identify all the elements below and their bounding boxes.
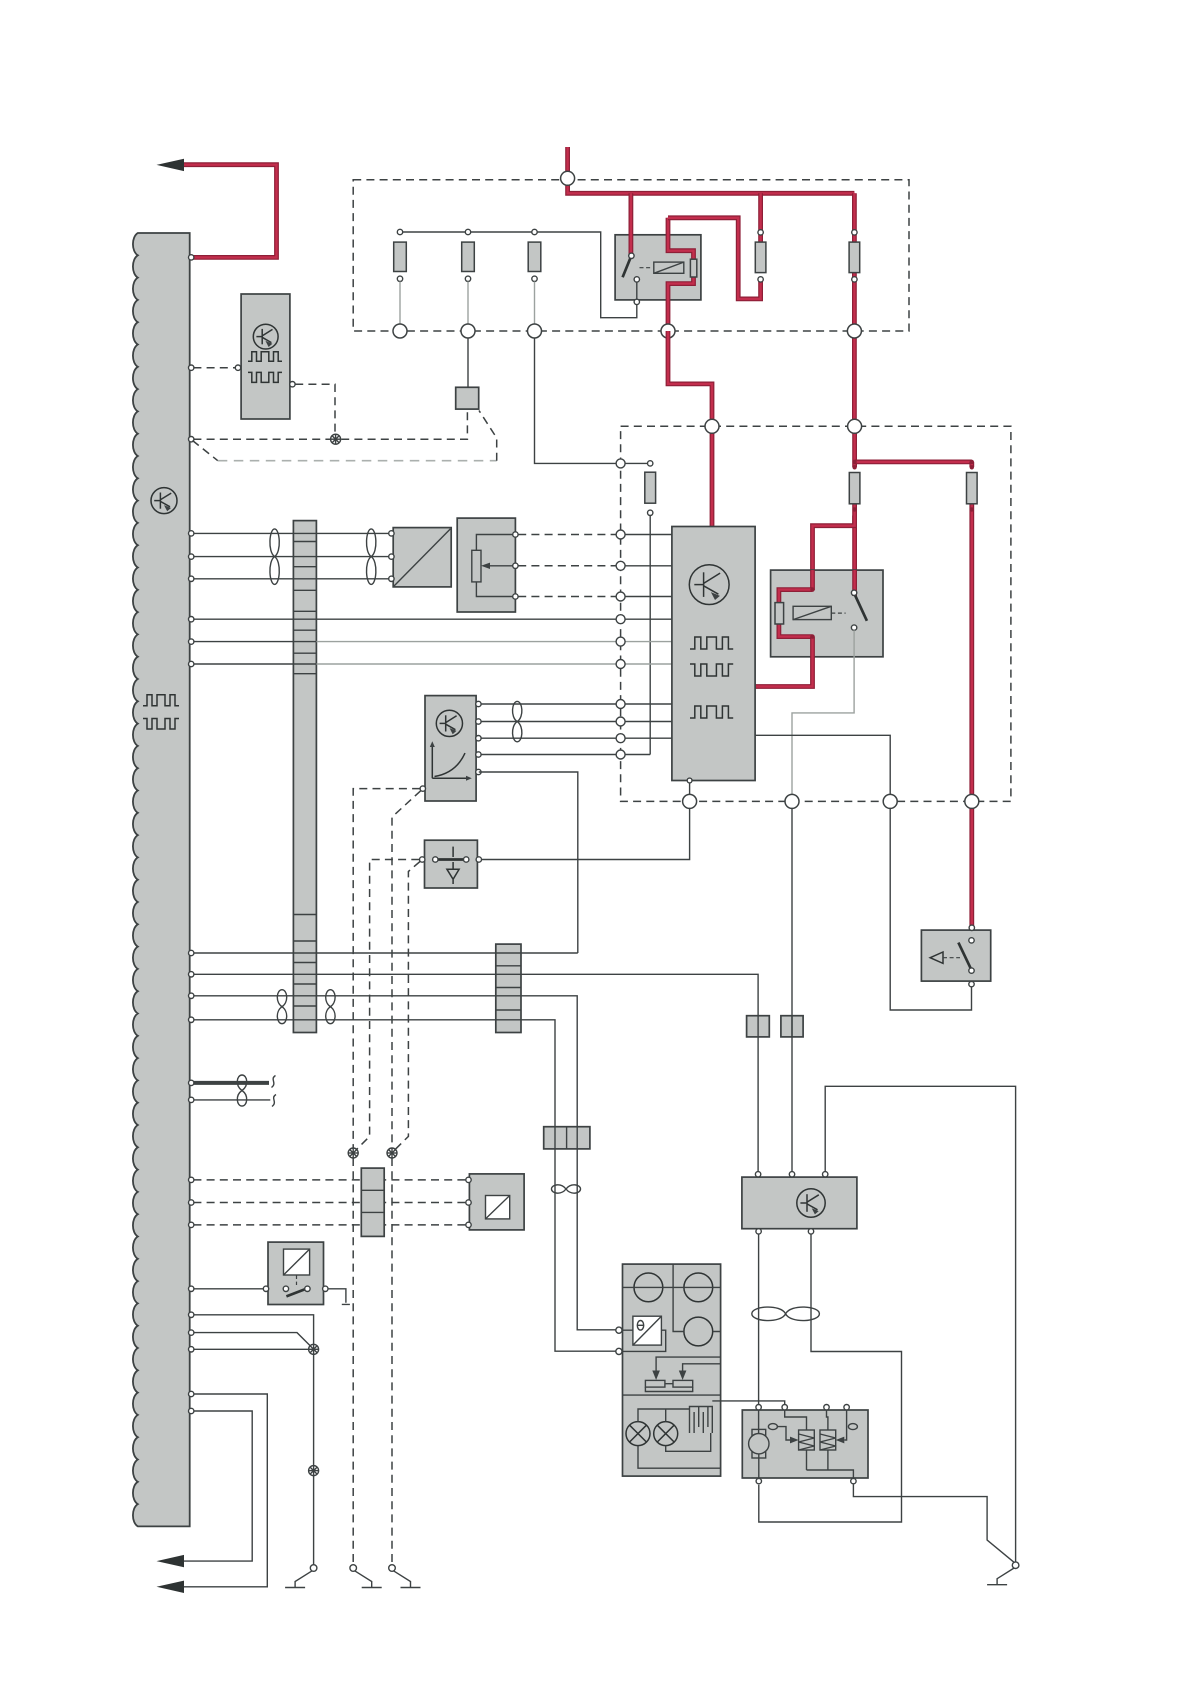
red wire W14 coil wrap loop: [779, 590, 813, 637]
cluster input pins: [616, 1327, 622, 1333]
fuse F1c bottom pin: [532, 276, 537, 281]
cluster gauge 1: [634, 1273, 663, 1302]
heater motor: [752, 1429, 766, 1458]
brake switch blade: [958, 943, 971, 969]
fuse F1b lead to node: [467, 282, 469, 325]
cluster rheostat 1: [645, 1380, 665, 1387]
relay K1 switch fixed contact pin: [634, 277, 639, 282]
fuse F5 body: [967, 473, 978, 504]
node on fuse box top edge (red feed): [561, 171, 575, 185]
wire column to ECU t1: [625, 703, 672, 705]
relay K1 body: [615, 235, 701, 300]
ECU connector pin column: [616, 459, 625, 468]
fuse header wire: [400, 232, 637, 318]
ground wire below splice S4: [313, 1355, 315, 1565]
speed module left pin: [235, 365, 240, 370]
bus pin diagnostic: [189, 437, 194, 442]
node G on ECU box top edge: [848, 419, 862, 433]
cluster rheostat 2: [673, 1380, 693, 1387]
twisted pair symbol T5: [326, 990, 335, 1024]
wire node B to junction box J1: [467, 338, 469, 387]
wire node C to left column node: [535, 338, 617, 463]
cluster dimmer arrow 1: [652, 1371, 660, 1381]
wire row bus 974 to blower controller: [193, 974, 758, 1171]
relay K2 coil: [793, 606, 831, 619]
wire row 1333 to splice S4: [193, 1333, 310, 1346]
fuse box dashed boundary: [353, 180, 909, 331]
red wire W8 node D to ECU top: [668, 331, 712, 526]
heater top pins: [756, 1405, 761, 1410]
blower controller bottom pins: [756, 1229, 761, 1234]
throttle output pins: [476, 701, 481, 706]
cluster lamp wiring: [638, 1409, 721, 1468]
fuse F1a lead to node: [399, 282, 401, 325]
splice S2: [348, 1148, 358, 1158]
single-pole connector C3: [747, 1016, 770, 1037]
cluster temp sensor box: [633, 1316, 662, 1345]
wire row bus to ECU r4: [193, 618, 616, 620]
cluster dimmer feed 1: [656, 1357, 721, 1371]
fuse F3 body: [849, 242, 860, 273]
lamp switch inner symbol: [284, 1249, 310, 1275]
dashed wire pot to column node 3: [518, 596, 616, 598]
wire column to ECU r5: [625, 641, 672, 643]
wire blower to heater motor: [758, 1234, 760, 1404]
relay K2 coil resistor: [775, 603, 784, 624]
relay K1 switch movable pin: [629, 253, 634, 258]
dashed wire V1 to throttle pin: [353, 789, 420, 1148]
heater series resistor 2: [820, 1430, 836, 1450]
red wire W13 elbow to coil loop: [813, 516, 855, 591]
fuse F1c top pin: [532, 229, 537, 234]
red wire W7 through fuse F3 down to node: [852, 193, 857, 426]
node E on fuse box bottom edge: [847, 324, 861, 338]
wire row 1394 to arrow: [184, 1394, 268, 1587]
mirror inner symbol: [486, 1196, 510, 1219]
bus pins rows 953-1020: [189, 950, 194, 955]
red wire W4 relay coil loop: [668, 218, 694, 332]
arrowhead to power supply (left): [157, 159, 185, 171]
twisted pair symbol T4: [277, 990, 286, 1024]
fuse F1b bottom pin: [465, 276, 470, 281]
wire column to ECU t3: [625, 737, 672, 739]
relay K1 bottom pin: [634, 299, 639, 304]
throttle left pin: [420, 786, 425, 791]
wire ECU bottom to node H: [689, 783, 691, 795]
heavy supply cable: [193, 1081, 269, 1085]
cluster dimmer arrow 2: [679, 1371, 687, 1381]
dashed wire row to mirror 1: [193, 1179, 465, 1181]
lamp switch blade: [286, 1288, 307, 1296]
cluster gauge 2: [684, 1273, 713, 1302]
fuse F1a bottom pin: [397, 276, 402, 281]
heater internal wiring: [777, 1410, 853, 1478]
relay K2 coil loop pins: [810, 587, 814, 591]
relay K2 switch blade: [855, 596, 867, 621]
brake switch pins: [969, 938, 974, 943]
blower controller top pins: [755, 1172, 760, 1177]
relay K2 switch output wire: [792, 630, 854, 794]
potentiometer output pins: [513, 532, 518, 537]
red supply wire W2 vertical into fuse box: [568, 147, 855, 193]
red wire W16 fuse F5 down to brake switch: [969, 500, 974, 928]
wire row bus to DC box 3: [193, 578, 390, 580]
heater terminal ellipse 2: [848, 1424, 857, 1430]
wire blower pin3 to ground G4: [825, 1086, 1015, 1562]
DC box input pins: [389, 531, 394, 536]
potentiometer resistor: [472, 550, 481, 582]
fuse F2 body: [755, 242, 766, 273]
fuse F1a top pin: [397, 229, 402, 234]
fuse F3 top pin: [852, 230, 857, 235]
twisted pair symbol T8: [752, 1307, 820, 1321]
cable cut mark 2: [272, 1095, 276, 1107]
brake switch arrow symbol: [930, 952, 943, 963]
fuse F6 top pin: [648, 461, 653, 466]
wire row bus to ECU r5: [193, 641, 316, 643]
red wire W12b switch feed over relay: [852, 570, 857, 596]
dashed wire pot to column node 2: [518, 565, 616, 567]
twisted pair symbol T1: [270, 529, 279, 585]
node F on ECU box top edge: [705, 419, 719, 433]
wire row bus to ECU r6: [193, 663, 316, 665]
red wire W15 ECU output to coil: [755, 637, 812, 687]
node J on ECU box bottom edge: [883, 794, 897, 808]
cluster lamp 2: [654, 1422, 678, 1446]
speed module right pin: [290, 382, 295, 387]
bus pins rows 1-3: [189, 531, 194, 536]
wire node I to blower controller: [791, 808, 793, 1171]
bus square-wave symbol (PWM out): [143, 695, 179, 706]
cluster gauge 3: [684, 1317, 713, 1346]
bus pin for red feed: [189, 255, 194, 260]
cable cut mark 1: [272, 1076, 276, 1088]
gray dashed detour wire: [193, 441, 218, 461]
node B on fuse box bottom edge: [461, 324, 475, 338]
ECU square-wave symbol 3: [690, 706, 733, 718]
twin connector C5: [544, 1127, 590, 1149]
lamp switch dashed link: [296, 1275, 298, 1285]
wire column to fuse lead t4: [625, 754, 650, 756]
speed signal module body: [241, 294, 290, 419]
dashed wire row to mirror 2: [193, 1202, 465, 1204]
wire column to ECU p2: [625, 565, 672, 567]
bus pins heavy pair: [189, 1080, 194, 1085]
heater terminal ellipse 1: [768, 1424, 777, 1430]
heater bottom pins: [756, 1478, 761, 1483]
dashed wire V3 below splice to ground: [391, 1158, 393, 1564]
lamp switch pins: [263, 1286, 268, 1291]
dashed wire bus to speed module: [193, 367, 235, 369]
wire row bus 953 to throttle idle line: [193, 952, 577, 954]
ground G1: [310, 1565, 317, 1572]
splice S1: [331, 434, 341, 444]
instrument cluster body: [623, 1264, 721, 1476]
dashed wire bus to junction box via splice S1: [193, 412, 467, 440]
connector block C6: [361, 1168, 384, 1236]
node C on fuse box bottom edge: [528, 324, 542, 338]
bus pins rows 1394-1411: [189, 1391, 194, 1396]
arrowhead lower 1: [157, 1555, 185, 1567]
node A on fuse box bottom edge: [393, 324, 407, 338]
blower controller transistor symbol: [797, 1189, 825, 1217]
wire row 1349 to splice S4: [193, 1348, 308, 1350]
fuse F1c body: [528, 242, 541, 271]
arrowhead lower 2: [157, 1581, 185, 1593]
bus pins rows 1315-1349: [189, 1312, 194, 1317]
node I on ECU box bottom edge: [785, 794, 799, 808]
red wire W14b coil wrap over relay: [779, 590, 813, 637]
bus pin lamp switch: [189, 1286, 194, 1291]
central electronic module connector bus (left edge torn): [133, 233, 190, 1526]
relay K1 switch blade: [623, 259, 631, 278]
wire column to ECU p3: [625, 596, 672, 598]
relay K1 coil: [654, 262, 684, 273]
wire row bus to DC box 2: [193, 556, 390, 558]
ground G3: [389, 1565, 396, 1572]
twisted pair symbol T2: [367, 529, 376, 585]
heater resistor arrows: [790, 1437, 799, 1444]
red wire W9 node E down to tee: [852, 426, 857, 467]
wire column to ECU r6: [625, 663, 672, 665]
ECU transistor symbol: [689, 565, 729, 605]
wire heater pin2 to cluster defroster: [712, 1401, 784, 1404]
ground switch tick: [452, 847, 454, 857]
ground switch contact bar: [438, 858, 465, 861]
dashed wire pot to column node 1: [518, 534, 616, 536]
wire column to ECU t2: [625, 721, 672, 723]
fuse F4 body: [849, 473, 860, 504]
twisted pair symbol T6: [237, 1075, 246, 1106]
cluster gauge rail: [623, 1264, 721, 1331]
red tee solder dots: [852, 460, 856, 464]
speed module transistor symbol: [253, 324, 278, 349]
dashed wire V3 diagonal from throttle pin: [392, 791, 421, 1148]
speed module square-wave symbol: [248, 352, 282, 362]
potentiometer taps: [476, 535, 512, 597]
wire column to ECU p1: [625, 534, 672, 536]
splice S4: [309, 1344, 319, 1354]
bus pin speed signal: [189, 365, 194, 370]
throttle characteristic graph: [432, 744, 469, 779]
wire heater to ground G4: [853, 1484, 1014, 1562]
splice S5: [309, 1466, 319, 1476]
dashed wire V4 diagonal from ground-switch pin: [395, 862, 420, 1150]
relay K2 switch pins: [851, 590, 856, 595]
ground switch box body: [425, 840, 478, 888]
red wire W15b coil return over relay: [810, 637, 815, 658]
ground G4: [1012, 1562, 1019, 1569]
potentiometer wiper arrow: [484, 565, 513, 567]
wire row 1315 to splice S4: [193, 1315, 313, 1344]
fuse F1b top pin: [465, 229, 470, 234]
red wire W13b over relay (coil feed): [810, 570, 815, 590]
fuse F1b body: [462, 242, 475, 271]
fuse F1a body: [394, 242, 407, 271]
wire column to ECU r4: [625, 618, 672, 620]
wire bus to lamp switch: [193, 1288, 263, 1290]
cluster rheostat base wires: [645, 1384, 692, 1392]
inline connector strip C1: [293, 521, 316, 1033]
ECU square-wave symbol 2 inverted: [690, 664, 733, 676]
wire segments through twin connector: [555, 1127, 577, 1149]
lamp switch output stub: [328, 1289, 350, 1305]
mirror input pins: [466, 1177, 471, 1182]
splice S3: [387, 1148, 397, 1158]
fuse F2 bottom pin: [758, 277, 763, 282]
ground G2: [350, 1565, 357, 1572]
bus pins mirror rows: [189, 1177, 194, 1182]
wire row bus 996 to cluster: [193, 996, 615, 1330]
ECU bottom pin: [687, 778, 692, 783]
relay K1 coil resistor: [690, 259, 696, 277]
ground switch ground symbol: [447, 862, 459, 884]
throttle transistor symbol: [436, 710, 462, 736]
wire column node to fuse F6: [625, 462, 650, 464]
red wire W3 branch to relay switch: [629, 193, 634, 256]
speed module square-wave symbol inverted: [248, 372, 282, 382]
bus pins rows 4-6: [189, 617, 194, 622]
red wire W6 through fuse F2: [758, 193, 763, 245]
cluster defroster element: [690, 1407, 713, 1434]
single-pole connector C4: [781, 1016, 803, 1037]
engine control unit dashed boundary: [621, 426, 1011, 801]
wire blower via resistor loop: [759, 1234, 902, 1522]
cluster lamp 1: [626, 1422, 650, 1446]
twisted pair symbol T7: [552, 1185, 581, 1193]
junction box J1 body: [456, 387, 479, 409]
node K on ECU box bottom edge: [965, 794, 979, 808]
twisted pair symbol T3: [513, 701, 522, 741]
relay K2 dashed actuation link: [831, 612, 845, 614]
wire row 1411 to arrow: [184, 1411, 253, 1561]
fuse F1c lead to node: [534, 282, 536, 325]
wire ground-switch to node H: [482, 808, 690, 859]
fuse F6 lead down to throttle row: [649, 516, 651, 755]
blower controller body: [742, 1177, 857, 1229]
heater blower unit body: [742, 1410, 868, 1478]
fuse F3 bottom pin: [852, 277, 857, 282]
red wire W11 right branch into fuse F5: [969, 462, 974, 467]
heater series resistor 1: [799, 1430, 815, 1450]
relay K2 body: [771, 570, 883, 657]
dashed wire V2 to ground-switch pin: [357, 860, 420, 1150]
cluster sensor wiring: [622, 1330, 666, 1351]
bus transistor symbol: [151, 488, 177, 514]
ground switch pins: [433, 857, 438, 862]
bus square-wave symbol inverted: [143, 719, 179, 730]
dashed wire row to mirror 3: [193, 1224, 465, 1226]
relay K1 dashed actuation link: [640, 267, 653, 269]
node H on ECU box bottom edge: [683, 794, 697, 808]
potentiometer sensor box body: [457, 518, 515, 612]
fuse F6 bottom pin: [648, 510, 653, 515]
inline connector strip C2: [496, 944, 521, 1032]
throttle module body: [425, 696, 476, 801]
lamp switch box body: [268, 1242, 324, 1304]
wire segments through connectors C3 C4: [758, 1016, 792, 1037]
dashed wire from speed module to splice S1: [295, 384, 335, 434]
fuse F6 body: [645, 472, 656, 503]
cluster dimmer feed 2: [683, 1364, 721, 1372]
wire ECU to node J and brake switch: [755, 735, 971, 1010]
throttle idle wire t5: [479, 772, 578, 953]
red wire W12 below fuse F4 to relay K2: [852, 500, 857, 596]
red battery feed wire W1 from bus to arrow: [182, 165, 277, 258]
dashed wire V1 below splice to ground: [352, 1158, 354, 1564]
mirror control box body: [469, 1174, 524, 1230]
fuse F2 top pin: [758, 230, 763, 235]
DC converter box body: [393, 528, 451, 587]
cluster divider: [623, 1394, 721, 1396]
ECU square-wave symbol 1: [690, 637, 733, 649]
companion cable: [193, 1099, 270, 1101]
throttle output wires: [479, 704, 616, 755]
brake switch box body: [921, 930, 990, 981]
engine control module body: [672, 527, 755, 781]
wire row bus to DC box 1: [193, 532, 390, 534]
wire row bus 1020 to cluster: [193, 1020, 615, 1351]
red wire W5 jog to fuse F2: [668, 218, 761, 299]
brake switch red feed pin: [969, 925, 974, 930]
red wire W10 tee horizontal: [855, 459, 972, 464]
node D on fuse box bottom edge: [661, 324, 675, 338]
